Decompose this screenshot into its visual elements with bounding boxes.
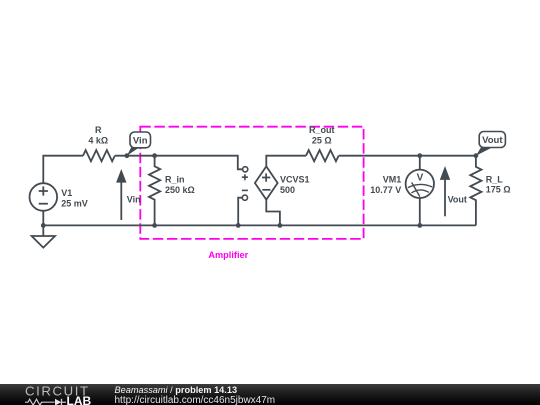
junction dot ground node — [41, 223, 46, 228]
svg-text:Vin: Vin — [133, 135, 148, 146]
svg-text:V: V — [417, 173, 424, 184]
voltmeter VM1 — [406, 170, 434, 198]
svg-text:Amplifier: Amplifier — [208, 250, 248, 260]
svg-text:4 kΩ: 4 kΩ — [88, 135, 108, 145]
footer text line 2 — [115, 395, 276, 405]
node Vin junction dot — [125, 153, 130, 158]
resistor R_in — [149, 156, 160, 226]
svg-text:VM1: VM1 — [383, 174, 402, 184]
flag Vin pointer — [127, 147, 139, 156]
vcvs VCVS1 diamond — [255, 166, 278, 199]
resistor R_out — [306, 150, 339, 161]
flag Vin — [130, 132, 151, 148]
svg-text:LAB: LAB — [67, 394, 92, 405]
amplifier dashed box — [140, 127, 363, 239]
flag Vout — [479, 132, 505, 148]
svg-text:R_L: R_L — [486, 174, 504, 184]
wire node Vin to VCVS input terminal — [115, 156, 243, 170]
svg-text:R_out: R_out — [309, 125, 335, 135]
resistor R_L — [470, 156, 481, 226]
wire V1 top to resistor R — [43, 156, 83, 184]
annotation arrow Vin — [120, 182, 122, 220]
svg-text:25 mV: 25 mV — [61, 199, 88, 209]
CircuitLab logo — [24, 384, 114, 405]
wire R_out to node Vout — [339, 155, 476, 157]
vcvs VCVS1 input terminal upper — [243, 167, 248, 172]
footer bar — [0, 384, 540, 405]
svg-text:10.77 V: 10.77 V — [370, 185, 401, 195]
resistor R — [83, 150, 115, 161]
junction dot VM1 top — [417, 153, 422, 158]
svg-text:Vout: Vout — [482, 135, 503, 146]
svg-text:R: R — [95, 125, 102, 135]
junction dot VCVS bottom — [278, 223, 283, 228]
wire bottom ground rail — [43, 224, 476, 226]
junction dot VCVS input lower at rail — [236, 223, 241, 228]
ground — [32, 236, 55, 248]
svg-text:R_in: R_in — [165, 174, 185, 184]
svg-text:VCVS1: VCVS1 — [280, 174, 310, 184]
junction dot R_in top — [152, 153, 157, 158]
svg-text:250 kΩ: 250 kΩ — [165, 185, 195, 195]
svg-text:V1: V1 — [61, 188, 72, 198]
junction dot node Vout — [474, 153, 479, 158]
junction dot R_in bottom — [152, 223, 157, 228]
voltmeter VM1 wires — [419, 156, 421, 226]
svg-text:Vout: Vout — [448, 194, 467, 204]
svg-text:Vin: Vin — [127, 194, 141, 204]
vcvs VCVS1 input terminal lower — [242, 195, 247, 200]
junction dot VM1 bottom — [417, 223, 422, 228]
annotation arrow Vout — [444, 180, 446, 217]
wire VCVS output top to R_out — [266, 156, 306, 167]
svg-text:25 Ω: 25 Ω — [312, 136, 332, 146]
svg-text:175 Ω: 175 Ω — [486, 185, 511, 195]
svg-text:500: 500 — [280, 185, 295, 195]
voltage source V1 — [42, 211, 44, 236]
footer text line 1 — [115, 385, 238, 395]
flag Vout pointer — [476, 147, 492, 156]
wire VCVS lower input terminal to ground rail — [238, 198, 242, 226]
wire VCVS output bottom to ground rail — [266, 200, 280, 226]
